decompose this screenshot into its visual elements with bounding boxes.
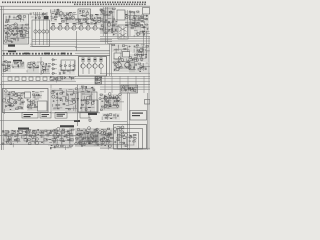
value label VL11 — [52, 12, 54, 15]
diode CR8 — [94, 18, 95, 19]
wire — [72, 135, 76, 137]
wiring region haze — [138, 63, 149, 73]
transistor Q99 — [121, 126, 124, 129]
transistor Q79 — [96, 128, 98, 130]
capacitor CCB5 — [44, 139, 47, 141]
wire — [133, 87, 135, 91]
wire — [34, 93, 36, 98]
wire — [143, 21, 145, 25]
wire — [137, 22, 139, 27]
wire — [97, 132, 99, 134]
wire — [20, 135, 22, 138]
value label VL4 — [11, 37, 14, 40]
wire right rail — [147, 93, 149, 150]
wire — [137, 56, 139, 58]
wiring region haze — [27, 99, 37, 111]
wire — [128, 15, 130, 20]
wire — [79, 141, 99, 143]
wire — [11, 129, 13, 131]
value label VL21 — [133, 22, 135, 25]
resistor R54 — [135, 25, 137, 26]
wire — [129, 69, 136, 71]
diode CRCRD3 — [69, 65, 71, 67]
transistor Q88 — [102, 141, 105, 144]
resistor R170 — [95, 135, 97, 137]
resistor R3 — [16, 28, 19, 29]
capacitor C51 — [17, 130, 18, 132]
wire — [115, 144, 122, 146]
resistor R33 — [112, 8, 115, 9]
wire bus — [100, 80, 150, 82]
wire — [109, 7, 112, 9]
capacitor CCT1 — [5, 134, 6, 136]
resistor R157 — [79, 134, 81, 135]
capacitor C37 — [34, 104, 37, 106]
wire — [117, 45, 119, 51]
wire — [56, 78, 58, 83]
wire — [81, 93, 83, 111]
wire — [129, 11, 131, 25]
resistor R177 — [134, 134, 136, 135]
diode CR10 — [109, 29, 111, 30]
wire — [16, 36, 18, 38]
wire — [76, 92, 78, 94]
wire — [116, 95, 118, 106]
wire — [115, 67, 131, 69]
transistor Q43 — [55, 78, 58, 81]
wire — [141, 52, 143, 62]
transistor Q54 — [14, 101, 17, 104]
wire — [13, 61, 16, 63]
wire — [130, 65, 132, 68]
wire — [122, 61, 125, 63]
wiring region haze — [15, 92, 24, 110]
wire — [90, 96, 92, 101]
label N1a — [42, 114, 50, 115]
transistor Q65 — [99, 98, 101, 100]
wire — [43, 131, 45, 144]
wire — [110, 44, 112, 76]
transistor Q83 — [75, 142, 78, 145]
resistor R7 — [14, 33, 16, 34]
resistor R125 — [105, 105, 108, 106]
resistor R131 — [104, 115, 106, 116]
wire — [7, 37, 24, 39]
resistor R180 — [125, 145, 127, 147]
wire — [67, 94, 69, 105]
wire — [105, 27, 107, 30]
wire — [107, 107, 110, 109]
wire — [26, 130, 28, 143]
wiring region haze — [100, 128, 113, 148]
wire — [104, 7, 106, 44]
resistor RRL4 — [29, 77, 33, 80]
wire — [19, 27, 23, 29]
diode CR32 — [73, 92, 75, 94]
assembly A3 power enclosure — [79, 57, 107, 77]
diode CR14 — [113, 34, 114, 35]
transistor Q53 — [18, 95, 21, 98]
diode CR19 — [145, 68, 147, 70]
value label VL67 — [109, 106, 112, 107]
label N2a — [57, 114, 66, 115]
wiring region haze — [65, 88, 79, 112]
wire — [72, 90, 74, 93]
transistor Q14 — [68, 13, 71, 16]
wire — [63, 144, 65, 146]
capacitor C14 — [113, 18, 114, 20]
resistor R79 — [139, 52, 142, 53]
resistor R51 — [141, 20, 143, 22]
wire — [4, 140, 20, 142]
resistor R61 — [146, 46, 149, 47]
wire — [30, 67, 38, 69]
wiring region haze — [30, 12, 48, 19]
transistor Q61 — [86, 101, 89, 104]
wire — [129, 10, 131, 36]
wire — [51, 68, 57, 70]
resistor R53 — [132, 23, 134, 24]
label TB-2 — [8, 50, 16, 52]
wire — [86, 135, 88, 142]
capacitor C13 — [105, 19, 108, 21]
wire — [125, 15, 139, 17]
value label VL55 — [63, 91, 65, 94]
resistor R141 — [33, 130, 36, 132]
wire — [8, 96, 10, 108]
value label VL57 — [60, 100, 62, 101]
wire — [126, 46, 128, 52]
wiring region haze — [27, 62, 39, 73]
resistor R85 — [140, 66, 142, 67]
value label VL18 — [108, 30, 110, 33]
value label VL49 — [9, 104, 12, 107]
transistor Q31 — [43, 67, 46, 70]
wire — [120, 50, 122, 54]
wire — [18, 92, 21, 94]
resistor R118 — [83, 100, 86, 101]
wire — [49, 10, 51, 14]
transistor Q49 — [2, 99, 5, 102]
resistor R137 — [6, 142, 8, 144]
wire — [78, 18, 80, 23]
wire — [30, 100, 32, 108]
wiring region haze — [129, 54, 138, 73]
value label VL65 — [88, 106, 91, 109]
wire — [115, 113, 117, 119]
wire — [56, 100, 58, 102]
wire — [105, 133, 110, 135]
resistor R154 — [68, 139, 70, 140]
wire — [2, 80, 76, 82]
wire — [107, 97, 120, 99]
resistor R52 — [138, 19, 140, 20]
resistor R132 — [107, 115, 109, 116]
wire — [12, 66, 22, 68]
diode CR20 — [50, 77, 52, 78]
label A2 — [44, 16, 49, 19]
value label VL84 — [76, 133, 78, 136]
resistor R93 — [128, 89, 131, 90]
wire — [82, 93, 93, 95]
wire — [13, 16, 15, 20]
diode CR2 — [11, 33, 13, 35]
value label VL19 — [125, 14, 127, 15]
wire — [17, 106, 22, 108]
capacitor C22 — [115, 29, 116, 31]
transistor Q70 — [116, 96, 119, 99]
wire — [53, 90, 63, 92]
wire — [76, 19, 80, 21]
wire — [62, 95, 66, 97]
value label VQ7 — [94, 23, 97, 24]
wire — [134, 29, 138, 31]
diode CR27 — [21, 98, 22, 99]
wire — [112, 11, 114, 32]
wire — [138, 22, 140, 26]
wire bus — [75, 78, 150, 80]
wiring region haze — [80, 89, 95, 112]
value label VL82 — [62, 141, 64, 142]
capacitor C58 — [54, 146, 55, 148]
transistor Q18 — [101, 10, 104, 13]
diode CR36 — [110, 98, 112, 100]
diode CR22 — [69, 77, 71, 78]
wire — [16, 94, 23, 96]
relay contact K2 — [38, 30, 41, 33]
transistor Q98 — [106, 140, 108, 142]
resistor R81 — [135, 54, 137, 55]
capacitor CCB3 — [24, 139, 27, 141]
wire — [10, 103, 12, 107]
resistor R172 — [80, 143, 82, 144]
transistor Q30 — [41, 62, 44, 65]
diode CR31 — [59, 104, 61, 105]
transistor Q10 — [18, 15, 22, 19]
value label VL44 — [99, 76, 102, 79]
wire — [4, 30, 6, 32]
wire — [95, 140, 97, 144]
transistor Q100 — [114, 128, 117, 131]
resistor R99 — [18, 99, 21, 100]
transistor Q21 — [107, 23, 110, 26]
wire — [80, 99, 93, 101]
value label VL35 — [42, 66, 44, 67]
wire — [61, 128, 63, 145]
value label VL50 — [10, 108, 12, 111]
wiring region haze — [12, 62, 25, 69]
wire — [68, 88, 72, 90]
value label VL85 — [80, 136, 83, 139]
resistor R64 — [2, 64, 4, 65]
resistor RRB8 — [54, 131, 58, 134]
resistor R150 — [49, 132, 51, 133]
wire — [9, 18, 24, 20]
wire — [119, 76, 121, 93]
capacitor C39 — [56, 93, 57, 95]
resistor R41 — [130, 11, 133, 12]
wire — [117, 45, 119, 47]
wire — [77, 23, 79, 25]
wire — [34, 98, 39, 100]
label TB2-C — [61, 53, 66, 55]
wire — [119, 141, 123, 143]
wire — [95, 135, 97, 145]
resistor R62 — [137, 50, 139, 51]
value label VL10 — [61, 17, 63, 20]
label CONTROL — [13, 60, 22, 62]
value label VL2 — [7, 23, 9, 26]
wire — [101, 133, 113, 135]
wiring region haze — [113, 58, 135, 72]
resistor R122 — [113, 97, 115, 99]
value label VQ5 — [80, 23, 83, 24]
capacitor CCB2 — [16, 139, 19, 141]
wire — [19, 93, 21, 105]
transistor Q85 — [99, 131, 102, 134]
resistor R45 — [126, 25, 128, 26]
wire — [51, 13, 53, 21]
capacitor CCT12 — [71, 134, 72, 136]
wire — [45, 13, 47, 18]
resistor R102 — [18, 107, 21, 108]
wire — [55, 128, 57, 145]
resistor R152 — [67, 134, 70, 135]
wire — [106, 105, 118, 107]
wire — [26, 70, 28, 72]
transistor QQP1 — [81, 57, 85, 74]
transistor Q97 — [100, 138, 103, 141]
value label VL87 — [88, 143, 90, 144]
wire — [2, 6, 4, 150]
wire — [6, 27, 8, 40]
thyristor CRSCR4 — [53, 72, 56, 75]
wire — [108, 140, 110, 143]
wire — [3, 139, 5, 141]
diode CR23 — [132, 88, 134, 90]
wiring region haze — [2, 61, 11, 72]
wire — [133, 35, 135, 37]
capacitor C40 — [60, 97, 61, 99]
wire — [143, 25, 145, 28]
wire — [142, 26, 149, 28]
wire — [136, 45, 138, 53]
transistor Q2 — [9, 25, 11, 27]
label TB2-A — [24, 53, 29, 55]
wire — [115, 48, 117, 53]
value label VL3 — [5, 27, 7, 30]
transistor Q57 — [52, 95, 55, 98]
capacitor C25 — [72, 69, 75, 71]
value label VQ6 — [87, 23, 90, 24]
resistor R11 — [20, 35, 23, 37]
resistor RRB4 — [26, 131, 30, 134]
wire — [20, 17, 22, 21]
wire — [58, 13, 60, 17]
wire — [28, 100, 33, 102]
resistor R66 — [3, 70, 6, 72]
diode CR5 — [20, 18, 21, 19]
wire — [134, 18, 136, 29]
wire — [61, 78, 63, 81]
wire bus — [100, 88, 150, 90]
resistor R139 — [25, 131, 28, 132]
wire — [102, 21, 112, 23]
value label VL86 — [88, 138, 90, 139]
wire — [143, 76, 145, 93]
transistor Q42 — [141, 67, 143, 69]
capacitor C15 — [108, 21, 111, 23]
transistor Q75 — [36, 138, 39, 141]
value label VL42 — [139, 70, 141, 73]
transistor Q16 — [86, 12, 89, 15]
resistor R143 — [25, 134, 27, 135]
value label VL51 — [21, 101, 23, 104]
diode CR35 — [81, 108, 82, 109]
transistor QQP2 — [87, 57, 91, 74]
wire — [68, 108, 77, 110]
wire — [54, 78, 56, 81]
wire — [141, 46, 143, 53]
resistor R136 — [2, 143, 4, 144]
resistor R74 — [63, 72, 65, 74]
value label VL22 — [143, 31, 146, 32]
value label VL66 — [101, 101, 103, 102]
wiring region haze — [112, 44, 132, 52]
wire — [78, 135, 80, 145]
resistor R25 — [90, 15, 93, 16]
wire — [22, 62, 24, 65]
transistor Q17 — [86, 18, 89, 21]
diode CR26 — [5, 105, 7, 107]
wire — [73, 61, 75, 70]
wire — [83, 96, 85, 100]
transistor Q1 — [14, 23, 18, 27]
transistor Q101 — [119, 127, 122, 130]
resistor R42 — [137, 11, 139, 12]
wire — [29, 100, 31, 103]
wire — [142, 63, 144, 68]
capacitor C4 — [14, 38, 15, 40]
transistor Q45 — [122, 86, 125, 89]
value label VL62 — [91, 86, 93, 89]
assembly A5 enclosure — [86, 100, 98, 112]
wire — [115, 32, 117, 34]
transistor Q38 — [140, 48, 144, 52]
wire — [101, 141, 112, 143]
transistor Q95 — [103, 132, 106, 135]
wire — [146, 50, 150, 52]
value label VL13 — [81, 14, 83, 17]
paper background — [0, 0, 150, 150]
capacitor C35 — [14, 101, 17, 103]
wire — [21, 137, 24, 139]
resistor R59 — [124, 48, 126, 49]
wire — [113, 49, 118, 51]
wire — [5, 95, 13, 97]
capacitor C32 — [134, 67, 135, 69]
wire — [89, 128, 91, 145]
transistor Q6 — [20, 30, 23, 33]
wire — [94, 144, 98, 146]
wiring region haze — [90, 14, 100, 25]
value label VL80 — [64, 136, 66, 137]
transistor Q86 — [105, 133, 108, 136]
transistor Q32 — [41, 71, 44, 74]
wire — [14, 63, 18, 65]
wire — [95, 137, 97, 141]
wire — [117, 60, 119, 71]
